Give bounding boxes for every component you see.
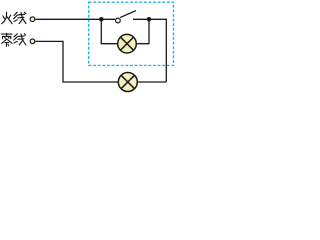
wire: bottom lamp right lead <box>137 81 166 83</box>
lamp L1 (inside box) <box>118 34 137 53</box>
wire: parallel lamp branch, left drop <box>101 19 118 43</box>
lamp L2 (below box) <box>118 73 137 92</box>
wire: live terminal to switch pivot <box>35 18 115 20</box>
label 零线 (neutral wire) <box>1 33 26 46</box>
dashed distribution-box outline <box>89 2 174 65</box>
terminal: live-wire binding post <box>30 17 35 22</box>
junction node left <box>99 17 104 22</box>
wire: bottom lamp left lead to neutral terminal <box>35 41 118 82</box>
wire: switch contact to right corner, down right side <box>133 19 166 82</box>
junction node right <box>147 17 152 22</box>
label 火线 (live wire) <box>2 12 26 24</box>
terminal: neutral-wire binding post <box>30 39 35 44</box>
switch S1 lever (open) <box>121 11 136 17</box>
switch S1 pivot <box>116 18 121 23</box>
wire: parallel lamp branch, right drop <box>136 19 149 43</box>
